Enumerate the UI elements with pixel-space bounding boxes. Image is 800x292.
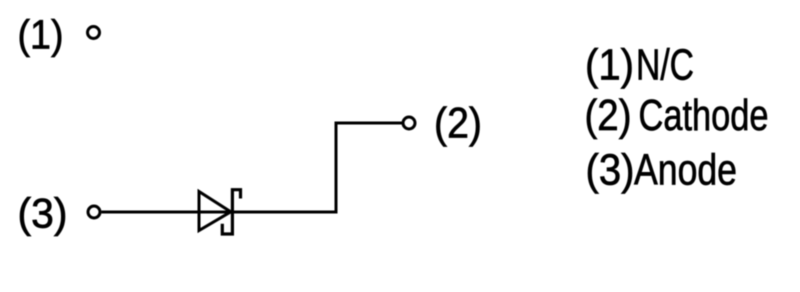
svg-text:(3): (3) [586, 146, 635, 194]
svg-text:N/C: N/C [636, 42, 694, 90]
terminal pin 1 N/C [88, 27, 100, 39]
svg-text:(1): (1) [18, 11, 64, 57]
svg-text:(2): (2) [585, 92, 632, 140]
svg-text:(3): (3) [18, 189, 68, 236]
svg-text:(1): (1) [585, 42, 634, 90]
diode D1 schottky cathode bar [222, 190, 240, 234]
wire vertical riser [335, 123, 338, 214]
svg-text:Cathode: Cathode [639, 92, 769, 140]
diode D1 schottky triangle [199, 192, 231, 231]
svg-text:(2): (2) [434, 100, 482, 147]
wire cathode horizontal [335, 122, 403, 125]
terminal pin 3 anode [88, 206, 100, 218]
wire anode horizontal [102, 211, 337, 214]
terminal pin 2 cathode [403, 117, 415, 129]
svg-text:Anode: Anode [634, 146, 737, 194]
